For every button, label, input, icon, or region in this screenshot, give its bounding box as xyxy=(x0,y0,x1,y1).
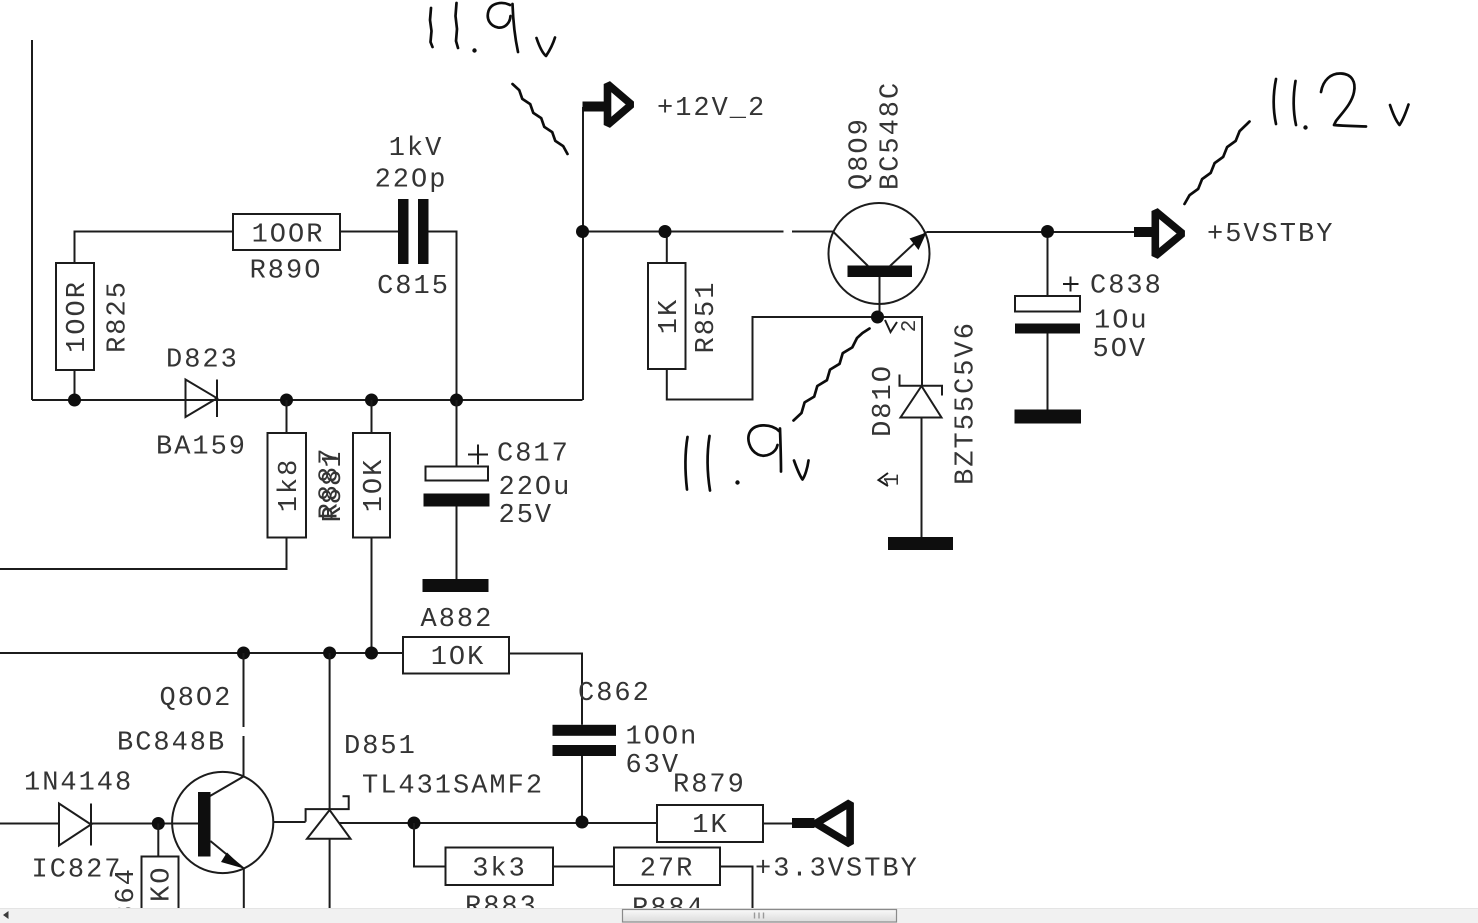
annotation 11.2v right xyxy=(1274,73,1409,126)
svg-text:63V: 63V xyxy=(626,751,681,781)
resistor R825 xyxy=(56,263,94,370)
svg-text:KO: KO xyxy=(148,866,178,902)
annotation 11.9v top xyxy=(430,3,555,56)
annotation 11.9v middle xyxy=(686,425,809,490)
resistor 10K (R864) bottom xyxy=(157,824,159,857)
wire R825 top to R890 xyxy=(75,232,234,264)
svg-text:IC827: IC827 xyxy=(32,856,123,886)
svg-text:C862: C862 xyxy=(578,679,651,709)
capacitor C815 xyxy=(398,199,409,264)
svg-text:D823: D823 xyxy=(166,346,239,376)
ground under D810 xyxy=(888,537,953,550)
ground under C817 xyxy=(423,579,489,592)
resistor 10K vertical xyxy=(371,400,373,433)
svg-text:5OV: 5OV xyxy=(1093,335,1148,365)
annotation pointer line right xyxy=(1185,122,1250,205)
diode 1N4148 xyxy=(0,823,59,825)
svg-text:D851: D851 xyxy=(344,732,417,762)
wire 665 toward Q809 base (with gap) xyxy=(665,231,833,233)
annotation pointer line middle xyxy=(794,329,870,421)
svg-text:R879: R879 xyxy=(673,771,746,801)
svg-text:+3.3VSTBY: +3.3VSTBY xyxy=(755,855,919,885)
svg-text:1kV: 1kV xyxy=(389,134,444,164)
wire R851 bottom to emitter node xyxy=(667,317,878,400)
wire +12V_2 vertical xyxy=(582,107,584,400)
wire node 583 to 665 xyxy=(583,231,665,233)
wire R879 to power arrow xyxy=(763,823,793,825)
pin 1 marker xyxy=(879,473,889,486)
svg-text:BZT55C5V6: BZT55C5V6 xyxy=(952,321,982,485)
wire R890 to C815 xyxy=(340,231,398,233)
shunt reference D851 TL431SAMF2 xyxy=(329,653,331,809)
wire Q809 emitter to +5VSTBY xyxy=(927,231,1135,233)
svg-text:3k3: 3k3 xyxy=(472,855,527,885)
svg-text:2: 2 xyxy=(899,320,922,333)
svg-text:1OK: 1OK xyxy=(360,458,390,513)
resistor R890 xyxy=(233,214,340,250)
svg-text:R89O: R89O xyxy=(250,257,323,287)
svg-text:1K: 1K xyxy=(655,298,685,334)
wire horizontal net y=653 xyxy=(0,652,403,654)
wire R882 to C862 xyxy=(509,654,582,725)
annotation pointer line top xyxy=(513,84,568,154)
svg-text:R887: R887 xyxy=(316,447,346,520)
svg-text:1OOn: 1OOn xyxy=(626,723,699,753)
wire C815 right, corner down to y400 xyxy=(429,232,457,401)
svg-text:22Op: 22Op xyxy=(375,166,448,196)
resistor R883 3k3 xyxy=(446,848,554,886)
svg-text:BA159: BA159 xyxy=(156,433,247,463)
node dots y653 xyxy=(237,647,250,660)
resistor R851 xyxy=(666,232,668,264)
resistor R884 27R xyxy=(614,848,720,886)
svg-text:C815: C815 xyxy=(377,272,450,302)
pin 2 marker xyxy=(885,320,897,332)
node dots y232 xyxy=(576,225,589,238)
power +3.3VSTBY xyxy=(792,818,815,828)
capacitor C862 xyxy=(553,725,617,736)
ground under C838 xyxy=(1015,410,1082,424)
svg-text:1K: 1K xyxy=(692,811,728,841)
svg-text:1OOR: 1OOR xyxy=(252,221,325,251)
power +5VSTBY xyxy=(1134,227,1155,237)
svg-text:22Ou: 22Ou xyxy=(499,473,572,503)
resistor R881 1k8 xyxy=(286,400,288,433)
wire 27R down xyxy=(720,867,753,909)
zener D810 BZT55C5V6 xyxy=(900,375,943,396)
wire emitter node to D810 xyxy=(878,317,923,386)
wire horizontal net y=400 xyxy=(32,399,583,401)
svg-text:1N4148: 1N4148 xyxy=(24,769,133,799)
svg-text:+5VSTBY: +5VSTBY xyxy=(1207,220,1334,250)
transistor Q809 xyxy=(829,203,930,304)
wire R825 bottom stub xyxy=(74,370,76,400)
svg-text:C817: C817 xyxy=(497,440,570,470)
power +12V_2 xyxy=(583,102,607,112)
node y400 dots xyxy=(68,394,81,407)
wire node down to 3k3 xyxy=(414,823,446,867)
wire 1k8 bottom to left xyxy=(0,538,287,570)
node emitter xyxy=(871,311,884,324)
svg-text:R825: R825 xyxy=(104,280,134,353)
svg-text:+12V_2: +12V_2 xyxy=(657,94,766,124)
wire Q802 to TL431 ref xyxy=(273,821,305,823)
svg-text:TL431SAMF2: TL431SAMF2 xyxy=(362,772,544,802)
wire TL431 to node xyxy=(340,822,658,824)
wire 3k3 to 27R xyxy=(553,866,614,868)
svg-text:27R: 27R xyxy=(640,855,695,885)
svg-text:D81O: D81O xyxy=(869,364,899,437)
svg-text:1k8: 1k8 xyxy=(275,458,305,513)
svg-text:C838: C838 xyxy=(1090,272,1163,302)
svg-text:Q8O2: Q8O2 xyxy=(160,684,233,714)
capacitor C838 xyxy=(1047,238,1049,296)
svg-text:BC848B: BC848B xyxy=(117,729,226,759)
node Q802 base xyxy=(152,817,165,830)
scrollbar xyxy=(0,908,1478,923)
wire left vertical bus xyxy=(31,40,33,400)
svg-text:25V: 25V xyxy=(499,501,554,531)
svg-text:1: 1 xyxy=(882,474,905,487)
svg-text:A882: A882 xyxy=(421,605,494,635)
svg-text:BC548C: BC548C xyxy=(877,81,907,190)
svg-text:1OOR: 1OOR xyxy=(63,280,93,353)
svg-text:R851: R851 xyxy=(692,281,722,354)
svg-text:1Ou: 1Ou xyxy=(1094,307,1149,337)
svg-text:1OK: 1OK xyxy=(431,643,486,673)
capacitor C817 xyxy=(456,400,458,467)
svg-text:Q8O9: Q8O9 xyxy=(846,117,876,190)
diode D823 BA159 xyxy=(186,380,218,418)
transistor Q802 xyxy=(210,653,244,796)
